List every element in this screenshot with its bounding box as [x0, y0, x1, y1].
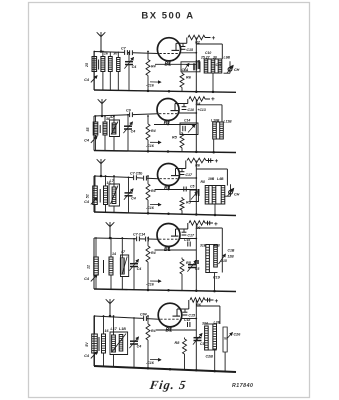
svg-text:-C16: -C16 — [146, 83, 155, 87]
svg-text:C4: C4 — [84, 139, 90, 143]
svg-text:12B: 12B — [228, 255, 235, 259]
stage1 bottom rail — [94, 90, 236, 92]
stage5 capacitor C15 — [183, 309, 196, 318]
stage2 grid condenser box — [180, 119, 198, 135]
stage1 antenna coil 25 — [85, 51, 97, 90]
stage5 antenna — [106, 299, 115, 317]
svg-text:47: 47 — [120, 250, 126, 254]
stage5 plate resistor R6 — [190, 298, 214, 307]
stage2 label B1 — [164, 121, 171, 127]
svg-text:C2B: C2B — [206, 355, 214, 359]
stage4 plate resistor R6 — [189, 221, 213, 230]
svg-text:C17: C17 — [187, 234, 195, 238]
svg-text:C17: C17 — [185, 173, 193, 177]
stage3 capacitor C9 and variable C5 — [184, 185, 199, 202]
svg-text:19B: 19B — [208, 177, 215, 181]
svg-text:-C16: -C16 — [146, 144, 155, 148]
svg-text:31B: 31B — [200, 244, 207, 248]
stage2 cathode stem — [167, 121, 169, 126]
stage4 bypass capacitor — [146, 280, 161, 287]
svg-text:C5: C5 — [195, 267, 199, 271]
stage1 fourth coil — [117, 52, 120, 91]
svg-text:L10B: L10B — [211, 119, 220, 123]
svg-text:30: 30 — [213, 56, 217, 60]
stage4 secondary coil 14 — [109, 237, 116, 289]
stage1 third coil 30 — [108, 52, 117, 91]
stage4 plate wire — [176, 223, 188, 229]
stage2 mid wire — [154, 124, 196, 126]
svg-text:C1A: C1A — [182, 68, 189, 72]
svg-text:C15: C15 — [188, 314, 196, 318]
stage3 mid wire — [155, 189, 197, 191]
svg-text:L1B: L1B — [119, 327, 126, 331]
stage2 junction dots — [147, 150, 215, 153]
svg-text:14: 14 — [112, 252, 116, 256]
stage1 plate wire — [176, 38, 187, 44]
stage4 triode B1 — [157, 224, 180, 247]
svg-text:C4: C4 — [84, 277, 90, 281]
stage4 coupling capacitor C14 — [146, 237, 149, 242]
stage5 output frame — [196, 306, 220, 370]
stage5 tuned winding box L17 — [110, 315, 128, 367]
stage2 core bar — [99, 125, 101, 133]
svg-text:C7 C5b: C7 C5b — [130, 172, 143, 176]
svg-text:C1B: C1B — [228, 249, 235, 253]
stage4 label B1 — [164, 247, 171, 253]
svg-text:R8: R8 — [201, 180, 205, 184]
stage3 B+ terminal — [215, 158, 219, 165]
stage2 bias resistor R5 — [172, 132, 184, 152]
stage3 secondary coil 16 — [104, 175, 112, 212]
stage3 plate feed wire — [179, 177, 197, 179]
stage1 output frame — [196, 44, 222, 92]
stage2 bottom rail — [94, 151, 236, 153]
stage2 coupling capacitor C9 — [126, 109, 132, 118]
stage5 trimmer C26 — [227, 333, 241, 339]
stage1 trimmer C4 — [84, 76, 97, 83]
svg-text:-C16: -C16 — [146, 206, 155, 210]
stage2 antenna coil 55 — [86, 115, 98, 150]
svg-text:-C16: -C16 — [146, 283, 155, 287]
stage4 capacitor C16 and variable C5 — [184, 238, 199, 272]
stage3 tuning capacitor C4 — [124, 177, 136, 213]
stage4 grid resistor R4 — [146, 237, 156, 290]
svg-text:C10: C10 — [205, 51, 211, 55]
stage4 transformer windings — [206, 245, 218, 292]
stage1 left bus wire — [93, 52, 95, 91]
stage3 antenna — [97, 159, 106, 177]
stage2 output frame — [196, 105, 222, 152]
svg-text:C4: C4 — [84, 354, 90, 358]
stage2 left bus wire — [93, 116, 95, 151]
stage5 plate wire — [177, 300, 189, 309]
svg-text:L17: L17 — [111, 327, 118, 331]
stage1 coupling capacitor C7 — [130, 50, 133, 55]
svg-text:C4: C4 — [84, 78, 90, 82]
stage1 coupling capacitor C7 — [121, 46, 127, 55]
stage5 capacitor C18 and variable C3 — [184, 318, 204, 346]
stage3 winding labels — [201, 177, 224, 184]
svg-text:L11B: L11B — [224, 120, 233, 124]
stage2 B+ terminal — [211, 96, 215, 103]
stage3 left bus wire — [93, 176, 95, 212]
stage3 capacitor C17 — [180, 169, 193, 178]
stage3 trimmer C4 — [84, 198, 97, 205]
svg-text:L2B: L2B — [214, 321, 221, 325]
stage5 B+ terminal — [215, 298, 219, 305]
stage4 junction dots — [147, 289, 216, 293]
svg-text:-C16: -C16 — [146, 361, 155, 365]
svg-text:32A: 32A — [202, 322, 209, 326]
stage1 triode B1 — [157, 38, 180, 61]
stage1 supply drop wire — [195, 38, 197, 45]
svg-text:C3: C3 — [200, 342, 204, 346]
stage5 plate feed wire — [181, 318, 197, 320]
stage3 label B1 — [164, 186, 171, 192]
svg-text:C14: C14 — [184, 119, 190, 123]
stage3 core bar — [99, 189, 101, 203]
stage1 grid condenser box — [181, 62, 200, 72]
stage4 bottom rail — [94, 289, 236, 292]
stage3 blocking capacitor — [196, 189, 198, 196]
stage2 grid resistor R4 — [146, 115, 156, 151]
svg-text:C4: C4 — [131, 130, 136, 134]
svg-text:CH: CH — [234, 68, 240, 72]
svg-text:R6: R6 — [186, 75, 192, 79]
stage5 tuning capacitor C4 — [129, 317, 141, 368]
stage2 plate resistor R4 — [189, 97, 210, 106]
svg-text:C84: C84 — [140, 312, 147, 316]
stage4 label C19 — [213, 276, 221, 280]
stage5 secondary coil 16 — [102, 315, 110, 366]
stage5 antenna coil 5V — [85, 315, 97, 366]
svg-text:C4: C4 — [132, 65, 137, 69]
svg-text:52: 52 — [85, 194, 89, 198]
stage1 core bar — [98, 60, 100, 70]
svg-text:CH: CH — [234, 193, 240, 197]
stage5 bias resistor R8 — [175, 338, 187, 370]
stage2 winding labels — [198, 108, 233, 124]
stage1 secondary coil 16 — [101, 51, 109, 91]
stage4 capacitor C17 — [182, 229, 195, 238]
stage5 label C2B — [206, 355, 214, 359]
stage1 cathode stem — [168, 61, 170, 65]
stage3 triode B1 — [158, 164, 180, 186]
svg-text:C5: C5 — [190, 185, 194, 189]
stage4 mid wire — [155, 249, 197, 251]
stage3 top rail — [94, 176, 158, 179]
svg-text:C15: C15 — [186, 48, 194, 52]
stage2 transformer windings — [213, 122, 224, 152]
stage3 output frame — [196, 169, 227, 215]
svg-text:30: 30 — [113, 52, 117, 56]
svg-text:C4: C4 — [137, 345, 142, 349]
stage4 B+ terminal — [214, 221, 218, 228]
svg-text:R8: R8 — [175, 341, 181, 345]
svg-text:C10: C10 — [187, 108, 194, 112]
svg-text:C9: C9 — [126, 109, 131, 113]
stage5 supply drop wire — [195, 300, 197, 306]
stage1 junction dots — [147, 90, 215, 94]
stage5 coupling capacitor C84 — [140, 312, 147, 321]
svg-text:C26: C26 — [234, 333, 242, 337]
svg-text:25 27: 25 27 — [200, 56, 211, 60]
stage5 cathode stem — [169, 327, 171, 331]
stage2 antenna — [98, 99, 107, 117]
svg-text:C7 C14: C7 C14 — [133, 233, 145, 237]
stage2 plate feed wire — [179, 112, 198, 114]
stage4 output frame — [196, 228, 222, 291]
stage3 tuned winding box L7 — [109, 175, 120, 212]
stage2 top rail — [94, 114, 158, 116]
stage4 antenna coil 12 — [87, 237, 99, 289]
stage1 phones CH — [224, 61, 240, 73]
stage2 secondary coil 38 — [103, 115, 110, 151]
stage5 bottom rail — [94, 366, 236, 372]
stage1 blocking capacitor — [197, 60, 199, 69]
svg-text:+C13: +C13 — [198, 108, 206, 112]
svg-text:R4: R4 — [151, 65, 156, 69]
stage4 blocking capacitor — [196, 260, 198, 264]
stage4 top rail — [94, 238, 158, 239]
svg-text:C19: C19 — [213, 276, 221, 280]
svg-text:55: 55 — [86, 127, 90, 132]
stage3 bias resistor R5 — [180, 197, 192, 214]
svg-text:+: + — [211, 96, 215, 103]
stage1 bias resistor R6 — [180, 72, 192, 92]
stage2 trimmer C4 — [84, 136, 97, 143]
stage4 coupling capacitor C7 — [133, 233, 145, 242]
stage5 transformer windings — [204, 324, 216, 371]
stage3 transformer windings — [205, 186, 225, 216]
svg-text:C4: C4 — [84, 200, 90, 204]
stage5 junction dots — [147, 367, 216, 372]
stage1 transformer windings — [204, 59, 222, 92]
stage1 top rail — [94, 52, 158, 54]
stage1 mid wire — [155, 63, 196, 65]
svg-text:L4B: L4B — [217, 177, 224, 181]
svg-text:R17840: R17840 — [232, 383, 253, 389]
svg-text:L9B: L9B — [224, 56, 231, 60]
stage3 plate resistor R6 — [187, 158, 214, 167]
stage2 capacitor C10 — [182, 104, 194, 113]
stage1 tuning capacitor C4 — [124, 52, 136, 91]
svg-text:BX 500 A: BX 500 A — [141, 11, 194, 22]
stage4 variable capacitor C15 — [219, 254, 226, 264]
stage3 plate wire — [176, 161, 186, 169]
svg-text:5V: 5V — [85, 342, 89, 347]
stage4 trimmer C4 — [84, 275, 97, 282]
svg-text:Fig. 5: Fig. 5 — [148, 378, 187, 392]
stage1 label B1 — [165, 62, 172, 68]
svg-text:C4: C4 — [137, 267, 142, 271]
svg-text:C4: C4 — [131, 196, 136, 200]
stage1 capacitor C15 — [181, 43, 194, 52]
svg-text:25: 25 — [85, 62, 89, 68]
svg-text:+: + — [215, 298, 219, 305]
stage3 bottom rail — [94, 212, 236, 216]
svg-text:+: + — [212, 35, 216, 42]
stage2 triode B1 — [157, 99, 179, 121]
stage4 winding labels — [200, 244, 235, 264]
stage1 plate feed wire — [180, 52, 197, 54]
stage4 bias resistor R5 — [180, 258, 192, 291]
svg-text:R4: R4 — [151, 329, 156, 333]
stage5 label B1 — [166, 327, 173, 333]
svg-text:42B: 42B — [213, 244, 221, 248]
svg-text:12: 12 — [87, 265, 91, 269]
stage5 winding labels — [202, 321, 220, 326]
stage5 left bus wire — [93, 316, 95, 366]
stage2 bypass capacitor — [146, 141, 161, 148]
stage3 phones CH — [224, 184, 240, 196]
stage1 plate resistor R2 — [188, 35, 211, 44]
stage2 supply drop wire — [195, 99, 197, 105]
svg-text:R4: R4 — [151, 129, 156, 133]
stage4 plate feed wire — [180, 238, 198, 240]
stage1 winding labels — [200, 51, 230, 67]
stage3 bypass capacitor — [146, 203, 161, 210]
svg-text:C11: C11 — [216, 63, 222, 67]
stage1 antenna — [97, 32, 106, 53]
stage5 mid wire — [156, 329, 196, 331]
stage4 supply drop wire — [195, 223, 197, 228]
stage5 grid resistor R4 — [146, 315, 156, 368]
stage3 junction dots — [147, 212, 217, 216]
svg-text:R4: R4 — [151, 251, 156, 255]
svg-text:+: + — [214, 221, 218, 228]
stage5 output box — [223, 327, 228, 372]
stage4 core bar — [103, 260, 105, 273]
svg-text:R5: R5 — [172, 136, 178, 140]
stage5 bypass capacitor — [146, 358, 161, 364]
stage2 plate wire — [175, 99, 188, 104]
stage3 coupling capacitor C7 — [130, 172, 143, 181]
stage3 cathode stem — [168, 186, 170, 191]
stage3 antenna coil 52 — [85, 175, 97, 212]
stage3 grid resistor R4 — [146, 175, 156, 213]
svg-text:+: + — [215, 158, 219, 165]
stage4 left bus wire — [93, 238, 95, 289]
stage4 tuned winding box 47 — [120, 237, 129, 289]
stage1 B+ terminal — [212, 35, 216, 42]
stage4 antenna — [106, 222, 115, 239]
svg-text:C7: C7 — [121, 46, 127, 50]
stage2 tuning capacitor C4 — [123, 114, 135, 151]
stage4 tuning capacitor C4 — [129, 238, 141, 290]
stage5 trimmer C4 — [84, 352, 97, 359]
stage4 cathode stem — [168, 247, 170, 251]
stage2 tuned winding box 47 — [109, 115, 120, 151]
stage3 supply drop wire — [195, 161, 197, 170]
stage1 grid resistor R4 — [146, 51, 156, 91]
stage5 triode B1 — [158, 303, 182, 327]
svg-text:16: 16 — [105, 329, 110, 333]
stage1 bypass capacitor — [146, 81, 161, 88]
stage5 top rail — [94, 316, 159, 319]
stage5 core bar — [98, 337, 100, 351]
stage3 coupling capacitor C5b — [144, 176, 147, 181]
